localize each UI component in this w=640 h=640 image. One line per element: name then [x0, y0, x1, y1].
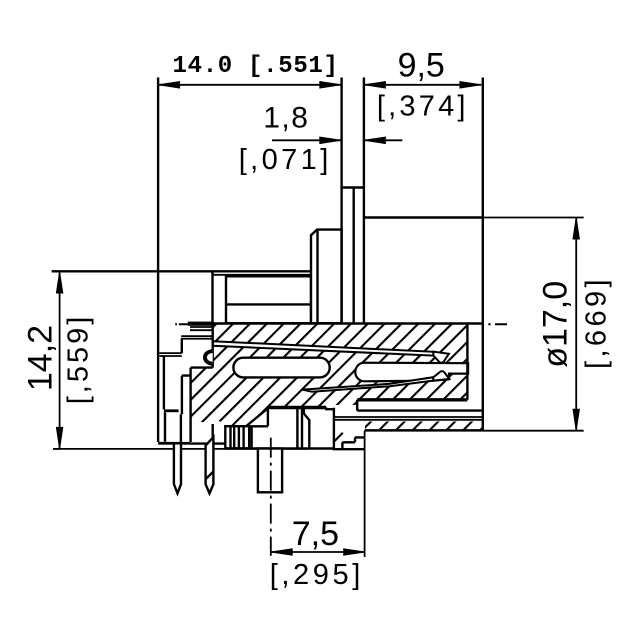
arrow 1,8 right: [364, 137, 385, 143]
shell top edge: [364, 216, 483, 218]
PCB seating extension line: [53, 448, 309, 450]
housing bottom thick edge: [158, 442, 190, 445]
grommet D-ring inner arc: [206, 352, 213, 363]
arrow dia17 top: [573, 218, 579, 239]
svg-text:[,295]: [,295]: [270, 559, 364, 591]
shell inner bottom double lines: [334, 417, 484, 420]
hatched step triangle: [334, 424, 352, 442]
step flange inner lines: [342, 437, 364, 449]
insulator bottom thick edge left: [268, 406, 327, 409]
comb strain relief box: [225, 426, 249, 448]
flange mid line: [353, 188, 355, 324]
flange left face + extension line: [340, 78, 342, 324]
svg-text:7,5: 7,5: [292, 515, 339, 553]
shell right edge + 9,5 extension line: [482, 78, 484, 431]
svg-text:14.0 [.551]: 14.0 [.551]: [173, 53, 339, 80]
arrow 7,5 right: [344, 549, 365, 555]
svg-text:[,374]: [,374]: [377, 91, 469, 123]
housing bottom thin edge: [190, 442, 225, 444]
diameter 17 bottom extension line: [364, 430, 583, 432]
7,5 dimension line: [271, 551, 365, 553]
housing interior lower ledge double line: [159, 353, 182, 356]
svg-text:[,559]: [,559]: [63, 314, 95, 405]
arrow 7,5 left: [271, 549, 292, 555]
solder pin 1: [174, 443, 181, 493]
housing bottom thick step: [164, 409, 179, 412]
svg-text:1,8: 1,8: [263, 101, 309, 134]
insulator bottom thick edge right: [357, 398, 467, 401]
terminal hatch boundary diagonal: [246, 408, 268, 426]
axis centerline right: [488, 323, 507, 325]
terminal inner verticals: [297, 408, 302, 448]
contact slot capsule lower-right: [355, 363, 468, 382]
housing step lines: [182, 368, 213, 442]
flange right face + extension line: [363, 78, 365, 324]
comb teeth: [231, 426, 244, 448]
housing interior thin lines under bar: [190, 327, 213, 330]
lower contact beak tip: [433, 371, 449, 381]
terminal bottom plate: [225, 447, 334, 449]
solder pin 2: [206, 437, 214, 493]
housing interior: thick solder bar: [188, 322, 214, 326]
arrowheads: [56, 82, 579, 556]
rear top edge second line: [213, 274, 312, 276]
rear face vertical outline + extension line of 14.0: [157, 78, 159, 443]
pin 2 chamfer mark: [206, 472, 214, 480]
1,8 left leader: [272, 139, 341, 141]
7,5 right extension line: [364, 431, 366, 557]
bushing behind flange: [311, 230, 342, 324]
svg-text:9,5: 9,5: [398, 47, 445, 85]
arrow 1,8 left: [320, 137, 341, 143]
comb right separator: [250, 426, 252, 448]
upper contact beak tip: [433, 352, 449, 363]
rear box outline: [226, 276, 311, 323]
14,2 bottom extension handled by PCB line: [53, 448, 59, 450]
diameter 17 top extension line: [364, 217, 584, 219]
central pin centerline: [270, 438, 272, 556]
svg-text:14,2: 14,2: [22, 325, 60, 391]
arrow 9,5 right: [460, 82, 481, 88]
arrow 9,5 left: [364, 82, 385, 88]
rear vertical wall at x=212.5: [211, 271, 213, 323]
arrow dia17 bottom: [573, 409, 579, 430]
insulator top edge line: [213, 322, 483, 324]
terminal left step: [225, 408, 268, 426]
flange top cap: [342, 186, 364, 188]
insulator block left edge: [211, 324, 213, 438]
arrow 14,2 top: [56, 272, 62, 293]
diameter 17 dimension line: [575, 219, 577, 430]
grommet D-ring outer arc: [204, 350, 213, 364]
upper contact spring strip: [213, 341, 434, 355]
notch step at 7.5 reference: [357, 400, 484, 411]
step flange below body: [334, 408, 365, 450]
housing interior ledge double line: [181, 336, 213, 339]
arrow 14,2 bottom: [56, 427, 62, 448]
hatched patch left of block: [191, 368, 213, 422]
central solder pin: [258, 449, 282, 493]
svg-text:ø17,0: ø17,0: [537, 281, 575, 368]
arrow 14.0 left: [159, 82, 180, 88]
bushing inner edge line: [316, 230, 318, 324]
14,2 dimension line: [59, 272, 61, 448]
housing pocket verticals: [165, 412, 181, 442]
small step at thick edge end: [326, 408, 334, 410]
rear box inner line: [226, 303, 311, 305]
svg-text:[,071]: [,071]: [239, 144, 332, 176]
capsule2 bottom step line: [448, 374, 450, 380]
housing interior vertical at ledge: [181, 338, 183, 353]
9,5 dimension line: [364, 84, 482, 86]
contact slot capsule upper-left: [233, 358, 329, 378]
dimension group: [53, 85, 584, 557]
svg-text:[,669]: [,669]: [581, 276, 613, 369]
14.0 dimension line: [158, 84, 341, 86]
insulator right edge: [466, 324, 468, 400]
lower contact spring strip: [303, 377, 434, 392]
shell bottom strip boundary: [365, 429, 484, 431]
housing interior vertical wall: [163, 356, 165, 410]
hatched insulator block main section: [213, 324, 468, 427]
1,8 right leader: [364, 139, 402, 141]
arrow 14.0 right: [320, 82, 341, 88]
rear housing top edge + 14,2 top extension line: [52, 270, 311, 272]
hatched bottom shell strip: [365, 422, 484, 430]
terminal chamfer: [304, 408, 310, 448]
axis centerline left: [175, 323, 189, 325]
